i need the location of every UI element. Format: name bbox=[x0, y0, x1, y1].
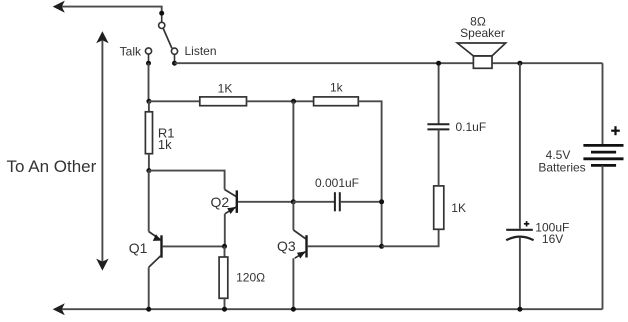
capacitor 0.001uF bbox=[293, 192, 381, 211]
battery BT 4.5V bbox=[583, 145, 623, 165]
arrowhead top-left bbox=[53, 1, 65, 13]
svg-text:Speaker: Speaker bbox=[460, 26, 505, 40]
node Q1 base / Q2 emitter / 120R top bbox=[222, 244, 227, 249]
wire Q3 base node to 1K bottom bbox=[382, 229, 439, 246]
node speaker right bbox=[517, 61, 522, 66]
wire Q3 collector riser bbox=[292, 202, 294, 230]
wire Listen rail (to speaker and battery) bbox=[175, 62, 603, 64]
switch SW1 Listen contact bbox=[171, 48, 177, 61]
label + (battery) bbox=[611, 126, 620, 135]
svg-text:16V: 16V bbox=[542, 232, 563, 246]
wire Q2 emitter down bbox=[224, 214, 226, 247]
svg-text:Q3: Q3 bbox=[277, 238, 296, 254]
wire bottom rail bbox=[61, 308, 603, 310]
resistor 1K (right vertical) bbox=[434, 186, 444, 229]
svg-text:1k: 1k bbox=[158, 137, 172, 152]
wire node to 1K left bbox=[149, 100, 200, 102]
node switch pole bbox=[159, 11, 164, 16]
capacitor 100uF bbox=[506, 63, 533, 309]
wire Q3 emitter down bbox=[292, 258, 294, 309]
resistor 1k (middle horizontal) bbox=[314, 97, 359, 106]
svg-text:Talk: Talk bbox=[120, 44, 142, 58]
wire Q3 base bbox=[308, 245, 382, 247]
transistor Q1 bbox=[149, 171, 162, 310]
arrowhead bottom-left bbox=[53, 303, 65, 315]
svg-text:Q1: Q1 bbox=[129, 240, 148, 256]
node mid top bbox=[291, 99, 296, 104]
capacitor 0.1uF bbox=[427, 63, 449, 186]
svg-text:0.001uF: 0.001uF bbox=[315, 176, 359, 190]
wire battery bottom to rail bbox=[602, 165, 604, 309]
svg-text:1k: 1k bbox=[330, 81, 344, 95]
node speaker left bbox=[436, 61, 441, 66]
svg-text:Q2: Q2 bbox=[211, 194, 230, 210]
node cap right bbox=[379, 199, 384, 204]
svg-text:0.1uF: 0.1uF bbox=[456, 120, 487, 134]
wire Q1 base bbox=[163, 245, 225, 247]
node R1 top bbox=[146, 99, 151, 104]
transistor Q2 bbox=[225, 190, 237, 215]
node Q3 base bbox=[379, 244, 384, 249]
resistor 1K (left horizontal) bbox=[200, 97, 247, 106]
resistor 120R bbox=[219, 246, 228, 309]
wire to Q2 collector bbox=[149, 171, 225, 190]
svg-text:1K: 1K bbox=[218, 82, 233, 96]
label + (100uF) bbox=[524, 221, 529, 226]
node Q2 base / cap left bbox=[291, 199, 296, 204]
svg-text:1K: 1K bbox=[451, 201, 466, 215]
wire Talk node down to R1 bbox=[148, 63, 150, 101]
node Listen bbox=[172, 61, 177, 66]
transistor Q3 bbox=[293, 230, 306, 259]
switch SW1 arm bbox=[163, 28, 172, 48]
svg-text:Listen: Listen bbox=[185, 44, 217, 58]
speaker SPK bbox=[457, 43, 505, 68]
node Talk bbox=[146, 61, 151, 66]
wire mid vertical (1k node down to Q2 base node) bbox=[292, 101, 294, 202]
svg-text:To An Other: To An Other bbox=[7, 157, 97, 176]
wire to other intercom (top) bbox=[61, 7, 162, 12]
switch SW1 pole terminal bbox=[159, 16, 165, 29]
node rail 120R bbox=[222, 307, 227, 312]
svg-text:Batteries: Batteries bbox=[538, 161, 585, 175]
node rail 100uF bbox=[517, 307, 522, 312]
svg-text:120Ω: 120Ω bbox=[236, 271, 265, 285]
double arrow to other intercom bbox=[96, 31, 108, 270]
wire Q2 base to cap node bbox=[238, 201, 293, 203]
wire 1k right end down to cap node bbox=[358, 101, 381, 246]
wire right rail down to battery bbox=[602, 63, 604, 145]
node rail Q1 bbox=[146, 307, 151, 312]
resistor R1 bbox=[145, 101, 152, 170]
wire between 1K and 1k bbox=[247, 100, 314, 102]
switch SW1 Talk contact bbox=[145, 48, 151, 61]
node R1 bottom bbox=[146, 168, 151, 173]
node rail Q3 bbox=[291, 307, 296, 312]
